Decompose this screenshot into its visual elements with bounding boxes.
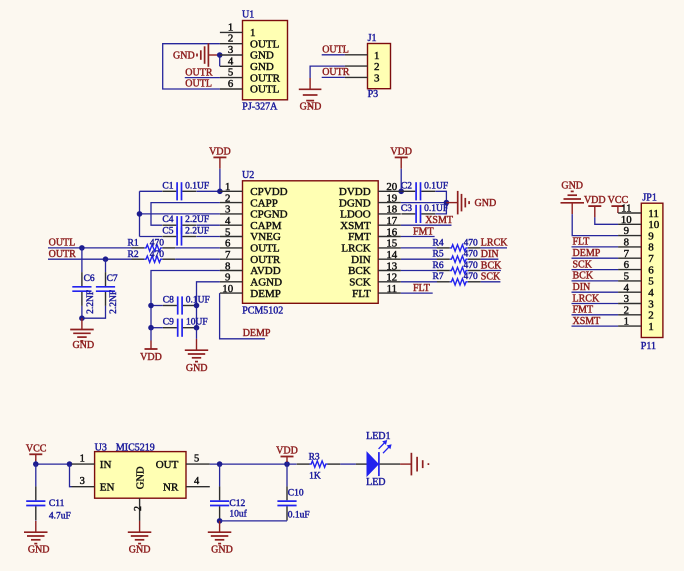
svg-text:OUTL: OUTL [250, 243, 280, 255]
svg-text:8: 8 [648, 242, 654, 254]
svg-text:1: 1 [250, 27, 256, 39]
svg-text:GND: GND [250, 50, 274, 62]
svg-text:FMT: FMT [348, 231, 371, 243]
svg-text:DIN: DIN [573, 282, 591, 293]
svg-text:3: 3 [80, 476, 85, 487]
svg-text:16: 16 [386, 226, 397, 238]
svg-text:SCK: SCK [481, 272, 501, 283]
svg-text:LDOO: LDOO [340, 209, 371, 221]
svg-text:CPVDD: CPVDD [250, 186, 287, 198]
svg-text:18: 18 [386, 204, 397, 216]
svg-text:1: 1 [80, 453, 85, 464]
svg-text:1: 1 [648, 321, 654, 333]
svg-text:LRCK: LRCK [341, 243, 370, 255]
svg-text:GND: GND [250, 61, 274, 73]
svg-text:DEMP: DEMP [243, 328, 271, 339]
svg-text:470: 470 [150, 250, 165, 260]
svg-text:C11: C11 [49, 499, 65, 509]
svg-text:1: 1 [624, 316, 629, 328]
svg-text:DIN: DIN [351, 254, 371, 266]
svg-text:VDD: VDD [140, 352, 162, 363]
svg-text:C8: C8 [163, 296, 174, 306]
svg-text:1: 1 [228, 21, 233, 33]
svg-text:C5: C5 [162, 227, 173, 237]
svg-text:470: 470 [464, 238, 479, 248]
svg-text:GND: GND [186, 363, 208, 374]
svg-text:1: 1 [225, 181, 230, 193]
svg-text:R3: R3 [309, 453, 320, 463]
svg-text:C7: C7 [107, 274, 118, 284]
svg-text:20: 20 [386, 181, 397, 193]
svg-text:C6: C6 [84, 274, 95, 284]
svg-text:R4: R4 [433, 238, 444, 248]
svg-text:SCK: SCK [573, 259, 593, 270]
svg-text:10: 10 [621, 214, 632, 226]
svg-text:FMT: FMT [413, 226, 434, 237]
svg-text:CPGND: CPGND [250, 209, 287, 221]
svg-text:DEMP: DEMP [250, 288, 281, 300]
svg-text:15: 15 [386, 238, 397, 250]
svg-text:XSMT: XSMT [573, 316, 601, 327]
svg-text:C2: C2 [401, 181, 412, 191]
svg-text:14: 14 [386, 249, 397, 261]
svg-text:7: 7 [225, 249, 231, 261]
svg-text:6: 6 [225, 238, 231, 250]
svg-text:C12: C12 [229, 499, 245, 509]
svg-text:3: 3 [225, 204, 230, 216]
svg-text:2.2NF: 2.2NF [86, 290, 96, 314]
svg-text:U3: U3 [95, 443, 107, 454]
svg-text:2: 2 [374, 61, 380, 73]
svg-text:GND: GND [475, 198, 497, 209]
svg-text:OUTL: OUTL [322, 45, 349, 56]
svg-text:OUTR: OUTR [49, 249, 77, 260]
svg-text:10uf: 10uf [229, 508, 247, 519]
svg-text:BCK: BCK [573, 271, 594, 282]
svg-text:R5: R5 [433, 250, 444, 260]
svg-text:OUTL: OUTL [250, 38, 280, 50]
svg-text:BCK: BCK [481, 260, 502, 271]
svg-text:OUTL: OUTL [250, 84, 280, 96]
svg-text:P3: P3 [368, 89, 379, 100]
svg-text:470: 470 [464, 250, 479, 260]
svg-text:GND: GND [300, 102, 322, 113]
svg-text:PCM5102: PCM5102 [242, 306, 283, 317]
svg-text:LRCK: LRCK [573, 293, 600, 304]
svg-text:R1: R1 [128, 239, 139, 249]
svg-text:8: 8 [225, 260, 230, 272]
svg-text:4: 4 [624, 282, 630, 294]
svg-text:P11: P11 [641, 341, 656, 352]
svg-text:4: 4 [648, 287, 654, 299]
svg-text:MIC5219: MIC5219 [116, 443, 155, 454]
svg-text:GND: GND [129, 545, 151, 556]
svg-text:LRCK: LRCK [481, 238, 508, 249]
svg-text:U2: U2 [242, 170, 254, 181]
svg-text:0.1uF: 0.1uF [288, 511, 310, 521]
svg-text:0.1UF: 0.1UF [185, 181, 209, 191]
svg-text:4: 4 [225, 215, 231, 227]
svg-text:C10: C10 [288, 489, 304, 499]
svg-text:OUTL: OUTL [49, 238, 76, 249]
svg-text:CAPM: CAPM [250, 220, 281, 232]
svg-text:R2: R2 [128, 250, 139, 260]
svg-text:2: 2 [624, 304, 629, 316]
svg-text:NR: NR [163, 481, 179, 493]
svg-text:C3: C3 [401, 204, 412, 214]
svg-text:AGND: AGND [250, 277, 282, 289]
svg-text:0.1UF: 0.1UF [186, 296, 210, 306]
svg-text:4: 4 [194, 476, 200, 487]
svg-text:OUTR: OUTR [250, 72, 281, 84]
svg-text:0.1UF: 0.1UF [424, 181, 448, 191]
svg-text:AVDD: AVDD [250, 265, 280, 277]
svg-text:OUTR: OUTR [185, 67, 213, 78]
svg-text:PJ-327A: PJ-327A [242, 102, 278, 113]
svg-text:GND: GND [211, 545, 233, 556]
svg-text:9: 9 [624, 225, 629, 237]
svg-text:FLT: FLT [352, 288, 371, 300]
svg-text:3: 3 [624, 293, 629, 305]
svg-text:C1: C1 [162, 181, 173, 191]
svg-text:VDD: VDD [209, 147, 231, 158]
svg-text:6: 6 [624, 259, 630, 271]
svg-text:GND: GND [173, 50, 195, 61]
svg-text:470: 470 [150, 239, 165, 249]
svg-text:5: 5 [648, 276, 654, 288]
svg-text:19: 19 [386, 192, 397, 204]
svg-text:4.7uF: 4.7uF [49, 511, 71, 521]
svg-text:4: 4 [228, 55, 234, 67]
svg-text:FLT: FLT [573, 237, 590, 248]
svg-text:VNEG: VNEG [250, 231, 281, 243]
svg-text:VDD: VDD [390, 147, 412, 158]
svg-text:J1: J1 [368, 33, 377, 44]
svg-text:2.2UF: 2.2UF [185, 227, 209, 237]
svg-text:11: 11 [621, 203, 631, 215]
svg-text:7: 7 [648, 253, 654, 265]
svg-text:XSMT: XSMT [340, 220, 371, 232]
svg-text:C9: C9 [163, 318, 174, 328]
svg-text:DIN: DIN [481, 249, 499, 260]
svg-text:GND: GND [561, 181, 583, 192]
svg-text:470: 470 [464, 272, 479, 282]
svg-text:6: 6 [648, 264, 654, 276]
svg-text:2.2UF: 2.2UF [185, 215, 209, 225]
svg-text:LED: LED [366, 477, 385, 488]
svg-text:LED1: LED1 [366, 431, 390, 442]
svg-text:2: 2 [225, 192, 230, 204]
svg-text:GND: GND [136, 466, 147, 489]
svg-text:C4: C4 [162, 215, 173, 225]
svg-text:OUTL: OUTL [185, 79, 212, 90]
svg-text:5: 5 [194, 453, 199, 464]
svg-text:VDD: VDD [276, 445, 298, 456]
svg-text:5: 5 [228, 67, 233, 79]
svg-text:BCK: BCK [348, 265, 371, 277]
svg-text:GND: GND [28, 545, 50, 556]
svg-text:IN: IN [100, 459, 112, 471]
svg-text:DVDD: DVDD [339, 186, 371, 198]
svg-text:OUTR: OUTR [322, 67, 350, 78]
svg-text:CAPP: CAPP [250, 197, 278, 209]
svg-text:3: 3 [374, 72, 380, 84]
svg-text:10UF: 10UF [186, 318, 208, 328]
svg-text:13: 13 [386, 260, 397, 272]
svg-text:11: 11 [648, 208, 659, 220]
svg-text:R7: R7 [433, 272, 444, 282]
svg-text:5: 5 [624, 271, 629, 283]
svg-text:5: 5 [225, 226, 230, 238]
svg-text:XSMT: XSMT [425, 215, 453, 226]
svg-text:9: 9 [225, 272, 230, 284]
svg-text:U1: U1 [242, 10, 254, 21]
svg-text:SCK: SCK [349, 277, 370, 289]
svg-text:17: 17 [386, 215, 397, 227]
svg-text:1K: 1K [309, 472, 321, 482]
svg-text:VDD: VDD [584, 195, 606, 206]
svg-text:DGND: DGND [339, 197, 371, 209]
svg-text:9: 9 [648, 230, 654, 242]
svg-text:10: 10 [648, 219, 660, 231]
svg-text:12: 12 [386, 272, 397, 284]
svg-text:EN: EN [100, 481, 115, 493]
svg-text:1: 1 [374, 50, 380, 62]
svg-text:OUTR: OUTR [250, 254, 281, 266]
svg-text:3: 3 [228, 44, 233, 56]
svg-text:7: 7 [624, 248, 630, 260]
svg-text:VCC: VCC [26, 443, 47, 454]
svg-text:2: 2 [133, 506, 144, 511]
svg-text:R6: R6 [433, 261, 444, 271]
svg-text:FLT: FLT [413, 283, 430, 294]
svg-text:470: 470 [464, 261, 479, 271]
svg-text:GND: GND [72, 340, 94, 351]
svg-text:2: 2 [648, 310, 654, 322]
svg-text:8: 8 [624, 237, 629, 249]
svg-text:11: 11 [387, 283, 397, 295]
svg-text:2.2NF: 2.2NF [109, 290, 119, 314]
svg-text:JP1: JP1 [642, 193, 656, 204]
svg-text:3: 3 [648, 298, 654, 310]
svg-text:10: 10 [222, 283, 233, 295]
svg-text:OUT: OUT [156, 459, 179, 471]
svg-text:2: 2 [228, 33, 233, 45]
svg-text:0.1UF: 0.1UF [424, 204, 448, 214]
svg-text:6: 6 [228, 78, 234, 90]
svg-text:DEMP: DEMP [573, 248, 601, 259]
svg-text:FMT: FMT [573, 305, 594, 316]
